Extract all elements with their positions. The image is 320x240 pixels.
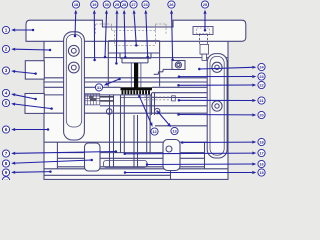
svg-text:4: 4 [5,91,8,96]
leader 6 [2,126,49,133]
balloon 10 partial [2,177,9,184]
ejector pins [109,95,111,167]
leader 21 [178,97,265,104]
sprue bushing body [108,52,159,54]
runner bar black [121,87,153,90]
leader 25 [201,1,208,32]
svg-text:30: 30 [105,2,109,7]
svg-text:8: 8 [5,161,8,166]
leader 13 [157,111,178,134]
stop screw part 25 [193,27,213,35]
leader 30 [103,1,110,58]
svg-text:3: 3 [5,68,8,73]
top clamp plate full width with center step [26,20,246,41]
teeth pocket floor [121,97,151,99]
ejector plate lines [57,152,204,154]
leader 19 top [91,1,98,61]
leader 23 right [178,73,265,80]
leader 1 [2,26,34,33]
svg-text:20: 20 [259,113,263,118]
leader 7 [2,150,117,157]
leader 12 [138,95,158,135]
right ejector guide pillar [163,140,180,171]
leader 26 [168,1,175,61]
puller block [172,61,185,70]
left pillar screw bottom [68,62,79,73]
bottom plate inner line [44,174,171,176]
sprue bushing bore walls [130,63,132,87]
svg-text:27: 27 [131,2,135,7]
left guide pillar bar [64,32,85,140]
leader 3 [2,67,36,75]
leader 29 [113,1,120,65]
slot bars [100,96,114,98]
svg-text:7: 7 [5,151,8,156]
svg-text:1: 1 [5,28,8,33]
leader 23 top [142,1,149,58]
insert table block [85,94,100,105]
left pillar screw top [68,45,79,56]
leader 18 right [181,138,265,145]
sprue channel black [134,63,138,88]
svg-text:17: 17 [259,151,263,156]
leader 22 [177,81,265,88]
right guide pillar bar [207,54,227,158]
leader 15 [124,169,265,176]
left clamp slot block lower [25,94,44,114]
leader 8 [2,159,93,167]
svg-text:10: 10 [4,178,8,180]
svg-text:9: 9 [5,170,8,175]
hidden pocket dashed [96,23,112,25]
hidden ejector rod dashed [144,96,172,98]
leader 28 [120,1,127,59]
ejector bush housing [104,161,148,168]
leader 17 [124,149,266,156]
right pillar screw top [212,62,222,72]
mold main body plates [44,41,228,180]
svg-text:6: 6 [5,127,8,132]
screw circle part 13 [155,108,160,113]
sprue bushing flange [121,58,123,63]
leader 20 [177,111,265,118]
leader 27 [130,1,138,47]
leader 5 [2,99,52,109]
spacer inner edges [56,142,58,169]
leader 31 [95,78,120,91]
leader 24 [198,63,265,70]
step ledges [163,68,174,70]
leader 16 [146,160,265,167]
leader 9 [2,169,51,176]
svg-text:2: 2 [5,47,8,52]
molded parts comb [122,90,150,94]
left ejector guide block [85,143,101,171]
cavity pocket R1 [108,40,159,42]
water line circle [106,109,112,115]
right pillar screw bottom [212,101,222,111]
leader 2 [2,45,51,52]
left clamp slot block upper [25,61,44,79]
plate boundary lines [44,57,228,59]
svg-text:5: 5 [5,101,8,106]
leader 4 [2,89,36,100]
leader 18 top [72,1,79,37]
